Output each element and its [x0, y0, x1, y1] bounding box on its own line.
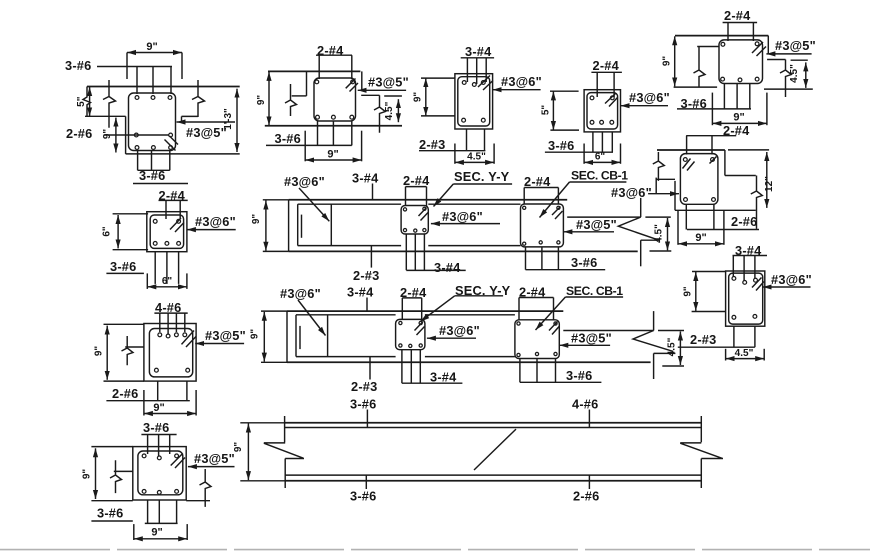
svg-text:4.5": 4.5" [384, 101, 395, 120]
J label 3-#6 bottom [91, 506, 132, 522]
svg-text:3-#6: 3-#6 [548, 138, 574, 153]
beam1 label 3-#4 [352, 171, 379, 200]
beam1 CB bottom bars [526, 247, 559, 270]
C label 2-#3 [419, 137, 485, 152]
svg-text:9": 9" [250, 329, 261, 340]
svg-text:2-#3: 2-#3 [690, 332, 716, 347]
beam1 SEC Y-Y stirrup square [401, 206, 428, 235]
svg-text:9": 9" [153, 402, 164, 414]
beam2 label #3@5" with arrow [559, 331, 612, 346]
svg-text:SEC. Y-Y: SEC. Y-Y [454, 169, 510, 184]
svg-text:3-#6: 3-#6 [110, 259, 136, 274]
beam2 SEC Y-Y rebar dots [399, 321, 423, 347]
beam2 SEC CB-1 stirrup square [515, 320, 559, 359]
B left dim 9" [256, 72, 269, 125]
A left break line [103, 80, 116, 128]
svg-text:9": 9" [256, 95, 267, 106]
svg-text:#3@6": #3@6" [771, 272, 812, 287]
beam1 Y-Y bottom bars [406, 234, 424, 270]
F stirrup [680, 154, 718, 205]
svg-text:9": 9" [683, 286, 694, 297]
I stirrup [149, 329, 192, 377]
F bottom bars [686, 204, 714, 229]
F left break line [653, 152, 665, 181]
svg-text:#3@5": #3@5" [368, 75, 409, 90]
A right dim 1'-3" [223, 89, 237, 152]
svg-text:6": 6" [102, 226, 113, 237]
I top bars [160, 313, 185, 334]
G stirrup [729, 273, 763, 324]
G outer rect [726, 271, 765, 326]
I label 2-#6 [106, 386, 189, 401]
J label #3@5" with arrow [188, 451, 235, 467]
C label 3-#4 [461, 44, 494, 59]
A inner dim 9" [102, 118, 116, 153]
E bottom dim 9" [712, 93, 767, 126]
beam2 label 3-#4 bottom [402, 370, 463, 385]
C bottom bars [467, 129, 485, 151]
G label 2-#3 [678, 332, 755, 347]
C left dim 9" [413, 78, 455, 116]
C label #3@6" with arrow [493, 74, 542, 90]
G rebar dots [732, 277, 757, 320]
svg-text:9": 9" [151, 527, 162, 539]
beam1 SEC CB-1 stirrup square [521, 204, 564, 247]
beam1 label 2-#3 [353, 246, 379, 283]
svg-text:3-#6: 3-#6 [65, 58, 91, 73]
E bottom bars [724, 84, 749, 109]
beam2 SEC Y-Y stirrup square [396, 319, 425, 349]
svg-text:6": 6" [595, 152, 606, 163]
svg-text:#3@6": #3@6" [611, 185, 652, 200]
beam1 left dim 9" [251, 200, 289, 252]
G left dim 9" [683, 272, 726, 312]
svg-text:2-#4: 2-#4 [403, 173, 430, 188]
F right dim 12" [728, 150, 775, 208]
svg-text:4.5": 4.5" [735, 348, 754, 359]
C top bars [467, 58, 486, 84]
beam2 CB bottom bars [520, 359, 556, 383]
H outer rect [147, 212, 187, 252]
beam1 label 2-#4 above SEC CB-1 [524, 174, 558, 204]
J left dim 9" [82, 447, 133, 501]
J outer rect [133, 447, 186, 500]
I bottom dim 9" [144, 390, 196, 416]
svg-text:4.5": 4.5" [654, 224, 665, 243]
F bottom dim 9" [678, 210, 724, 245]
svg-text:#3@6": #3@6" [439, 323, 480, 338]
svg-text:3-#6: 3-#6 [97, 506, 123, 521]
B outer outline [265, 71, 402, 125]
E right dim 4.5" [789, 60, 808, 88]
beam3 label 2-#6 [573, 475, 599, 503]
A label 2-#6 [66, 126, 169, 141]
beam3 label 3-#6 bottom [350, 475, 376, 503]
beam1 SEC Y-Y rebar dots [403, 207, 426, 232]
svg-text:#3@6": #3@6" [501, 74, 542, 89]
F rebar dots [683, 158, 715, 202]
G bottom bars [734, 326, 755, 347]
B label 3-#6 [266, 131, 352, 146]
D bottom dim 6" [584, 144, 620, 164]
svg-text:9": 9" [662, 56, 673, 67]
D stirrup [587, 93, 618, 129]
svg-text:3-#4: 3-#4 [352, 171, 379, 186]
A rebar dots [134, 96, 172, 150]
B label 2-#4 [316, 43, 352, 58]
F label 2-#6 [687, 214, 759, 230]
B bottom dim 9" [305, 131, 361, 162]
D bottom bars [593, 132, 612, 152]
E right break line [780, 60, 791, 98]
svg-text:2-#4: 2-#4 [724, 8, 751, 23]
E label 3-#6 [677, 96, 751, 111]
H bottom dim 6" [147, 273, 187, 289]
D label 2-#4 [591, 58, 622, 73]
E left break line [694, 47, 706, 88]
svg-text:2-#6: 2-#6 [112, 386, 138, 401]
I stirrup hook [182, 331, 197, 348]
E outer outline [674, 36, 813, 90]
beam3 lap splice diagonal [474, 429, 516, 470]
I rebar dots [155, 333, 190, 372]
I left dim 9" [94, 324, 144, 381]
svg-text:9": 9" [146, 41, 157, 53]
J bottom bars [145, 500, 178, 523]
beam1 label #3@6" top-left with diagonal arrow [284, 174, 329, 221]
B bottom bars [318, 121, 352, 145]
J left step and break [110, 460, 133, 493]
A label 3-#6 bottom [133, 168, 188, 184]
H top bars [166, 200, 180, 219]
beam2 left dim 9" [250, 311, 288, 362]
G stirrup hook [752, 278, 764, 291]
svg-text:4.5": 4.5" [467, 152, 486, 163]
A label 3-#6 top [65, 58, 172, 73]
C stirrup [458, 77, 490, 126]
A stirrup [129, 93, 176, 151]
H bottom bars [155, 252, 178, 284]
H rebar dots [153, 219, 180, 245]
C bottom dim 4.5" [455, 144, 494, 164]
svg-text:3-#4: 3-#4 [465, 44, 492, 59]
svg-text:4-#6: 4-#6 [572, 397, 598, 412]
beam2 label SEC. Y-Y [421, 283, 511, 322]
beam2 inner cage lines [296, 315, 515, 357]
C outer rect [455, 74, 493, 129]
svg-text:SEC. CB-1: SEC. CB-1 [571, 169, 628, 183]
beam2 Y-Y bottom bars [402, 350, 420, 384]
B stirrup hook [346, 79, 358, 92]
beam1 label SEC. Y-Y [434, 169, 513, 207]
svg-text:2-#6: 2-#6 [731, 214, 757, 229]
svg-text:3-#6: 3-#6 [275, 131, 301, 146]
beam1 inner cage lines [298, 204, 521, 245]
C rebar dots [462, 81, 485, 123]
svg-text:#3@6": #3@6" [195, 214, 236, 229]
svg-text:6": 6" [162, 276, 173, 287]
B left break line [285, 84, 297, 116]
I label 4-#6 [154, 300, 187, 315]
E label 2-#4 [723, 8, 758, 23]
H stirrup [150, 215, 183, 248]
svg-text:3-#6: 3-#6 [350, 489, 376, 504]
A top dimension 9" [127, 41, 182, 79]
beam2 SEC CB-1 rebar dots [517, 322, 557, 357]
E top bars [728, 23, 753, 42]
B right dim 4.5" [384, 96, 402, 122]
beam1 label #3@6" mid with arrow [431, 209, 500, 224]
I left step and break [122, 336, 144, 365]
beam1 label 2-#4 above SEC Y-Y [403, 173, 430, 206]
beam2 label SEC. CB-1 [536, 284, 624, 330]
beam1 SEC CB-1 rebar dots [523, 206, 560, 245]
J stirrup [138, 451, 183, 495]
A top bars [137, 67, 171, 95]
svg-text:4.5": 4.5" [667, 337, 678, 356]
svg-text:SEC. CB-1: SEC. CB-1 [566, 284, 623, 298]
svg-text:#3@6": #3@6" [280, 286, 321, 301]
E stirrup hook [752, 42, 766, 56]
D left dim 5" [541, 91, 580, 130]
beam2 label 2-#3 [351, 357, 377, 394]
svg-text:9": 9" [695, 232, 706, 244]
svg-text:9": 9" [233, 442, 244, 453]
B right break line [374, 95, 385, 133]
C stirrup hook [478, 76, 493, 91]
B label #3@5" with arrow [358, 75, 409, 91]
svg-text:3-#4: 3-#4 [430, 370, 457, 385]
H label 3-#6 [106, 259, 143, 274]
beam2 label 3-#6 [520, 368, 602, 383]
E left dim 9" [662, 36, 675, 86]
A bottom bars [138, 151, 170, 171]
svg-text:3-#6: 3-#6 [143, 420, 169, 435]
svg-text:9": 9" [94, 346, 105, 357]
A right break line [192, 80, 205, 117]
svg-text:12": 12" [764, 176, 775, 192]
J rebar dots [142, 454, 178, 494]
bottom sheet border (faint) [0, 549, 870, 551]
J stirrup hook [171, 453, 185, 468]
svg-text:9": 9" [251, 214, 262, 225]
svg-text:9": 9" [82, 469, 93, 480]
beam2 label #3@6" top-left with diagonal arrow [280, 286, 326, 336]
beam2 right dim 4.5" [658, 331, 684, 367]
H left dim 6" [102, 214, 149, 250]
svg-text:2-#6: 2-#6 [573, 489, 599, 504]
F label 2-#4 [686, 123, 750, 138]
beam3 label 4-#6 [572, 397, 598, 429]
F right break line [751, 176, 763, 229]
beam2 label 3-#4 [347, 285, 374, 312]
svg-text:#3@5": #3@5" [186, 125, 227, 140]
A stirrup hook [165, 136, 179, 151]
J top bars [148, 435, 170, 457]
I outer rect [144, 324, 196, 382]
beam3 label 3-#6 top [350, 397, 376, 429]
svg-text:3-#6: 3-#6 [139, 168, 165, 183]
svg-text:2-#3: 2-#3 [351, 379, 377, 394]
svg-text:4.5": 4.5" [789, 64, 800, 83]
B stirrup [314, 78, 356, 121]
svg-text:3-#4: 3-#4 [347, 285, 374, 300]
E rebar dots [721, 42, 759, 82]
beam2 label 2-#4 above SEC Y-Y [400, 285, 427, 320]
beam2 right end step and break [563, 311, 675, 379]
A outer outline [83, 87, 240, 154]
svg-text:9": 9" [327, 149, 338, 161]
svg-text:3-#6: 3-#6 [571, 255, 597, 270]
svg-text:9": 9" [733, 112, 744, 124]
beam1 label 3-#6 [526, 255, 606, 270]
G bottom dim 4.5" [726, 348, 765, 361]
svg-text:2-#4: 2-#4 [593, 58, 620, 73]
beam3 outline top/bottom double lines [285, 423, 702, 481]
A label #3@5" with arrow [177, 122, 236, 140]
svg-text:3-#6: 3-#6 [350, 397, 376, 412]
F outer outline [656, 150, 756, 210]
J label 3-#6 top [141, 420, 176, 435]
beam2 SEC CB-1 stirrup hook [549, 322, 560, 335]
svg-text:1'-3": 1'-3" [223, 108, 234, 130]
D top bars [597, 72, 614, 97]
J bottom dim 9" [134, 524, 187, 540]
svg-text:#3@5": #3@5" [571, 331, 612, 346]
beam1 right end step and break [567, 198, 659, 266]
svg-text:#3@5": #3@5" [205, 328, 246, 343]
E label #3@5" with arrow [766, 38, 816, 54]
beam3 right break [680, 416, 723, 488]
svg-text:3-#4: 3-#4 [434, 260, 461, 275]
svg-text:3-#6: 3-#6 [566, 368, 592, 383]
svg-text:9": 9" [102, 129, 113, 140]
B rebar dots [315, 80, 355, 119]
G top bars [733, 256, 755, 283]
H label #3@6" with arrow [187, 214, 236, 230]
svg-text:#3@6": #3@6" [442, 209, 483, 224]
B top bars [319, 55, 352, 79]
beam1 label #3@5" with arrow [563, 217, 617, 232]
beam2 SEC Y-Y stirrup hook [415, 322, 425, 336]
svg-text:#3@5": #3@5" [194, 451, 235, 466]
D rebar dots [590, 96, 614, 124]
svg-text:2-#3: 2-#3 [419, 137, 445, 152]
svg-text:5": 5" [76, 96, 87, 107]
beam1 SEC CB-1 stirrup hook [552, 207, 563, 220]
A left dim 5" [76, 87, 90, 116]
beam2 outer outline [287, 311, 651, 362]
beam1 outer outline [289, 200, 638, 252]
svg-text:2-#3: 2-#3 [353, 268, 379, 283]
svg-text:2-#4: 2-#4 [524, 174, 551, 189]
D outer rect [584, 90, 620, 132]
svg-text:#3@6": #3@6" [629, 90, 670, 105]
D label 3-#6 [545, 138, 613, 153]
F label #3@6" with right-pointing arrow [611, 185, 679, 200]
beam1 label 3-#4 bottom [406, 260, 465, 275]
I bottom bars [158, 381, 187, 401]
H label 2-#4 [159, 188, 188, 203]
svg-text:#3@5": #3@5" [576, 217, 617, 232]
svg-text:2-#6: 2-#6 [66, 126, 92, 141]
F top bars [687, 136, 712, 155]
beam1 label SEC. CB-1 [540, 169, 629, 218]
svg-text:5": 5" [541, 105, 552, 116]
svg-text:9": 9" [413, 92, 424, 103]
D label #3@6" with arrow [621, 90, 670, 106]
I label #3@5" with arrow [195, 328, 246, 344]
svg-text:#3@5": #3@5" [775, 38, 816, 53]
beam1 SEC Y-Y stirrup hook [419, 208, 429, 221]
beam2 label #3@6" mid with arrow [427, 323, 480, 338]
E stirrup [719, 40, 763, 84]
svg-text:#3@6": #3@6" [284, 174, 325, 189]
beam1 right dim 4.5" [645, 217, 671, 251]
G label 3-#4 [733, 243, 768, 258]
H stirrup hook [170, 218, 184, 232]
D stirrup hook [605, 94, 618, 107]
J right break [186, 469, 211, 507]
G label #3@6" with arrow [763, 272, 812, 287]
beam2 label 2-#4 above SEC CB-1 [519, 285, 554, 320]
beam3 left dim 9" [233, 423, 285, 481]
F stirrup hook (top-left) [683, 157, 717, 171]
beam3 left break [264, 416, 304, 488]
